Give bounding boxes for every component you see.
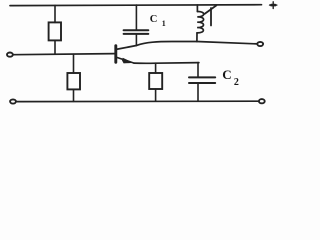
plus supply polarity mark: [270, 2, 277, 9]
wire bottom common rail: [16, 100, 259, 102]
wire collector/tank rail to output: [137, 42, 258, 46]
svg-text:C: C: [150, 14, 158, 25]
label C1: [150, 14, 166, 28]
resistor R3: [149, 63, 162, 101]
svg-text:1: 1: [162, 19, 166, 28]
capacitor C2: [189, 63, 215, 102]
transistor Q1 emitter lead with arrow: [117, 57, 134, 63]
label C2: [222, 67, 239, 88]
svg-text:2: 2: [234, 77, 239, 88]
ground/common terminal circle (left bottom): [10, 99, 16, 103]
output terminal circle (right mid): [257, 42, 263, 46]
resistor R1: [49, 5, 61, 54]
inductor core/arrow mark: [205, 5, 217, 25]
transistor Q1 collector lead: [117, 46, 137, 50]
capacitor C1: [124, 5, 149, 45]
resistor R2: [67, 54, 80, 101]
output terminal circle (right bottom): [259, 99, 265, 103]
wire emitter rail: [134, 62, 199, 65]
input terminal circle (left top): [7, 53, 13, 57]
wire input line to base: [13, 54, 115, 55]
wire top supply rail: [10, 4, 262, 7]
transistor Q1 base bar: [114, 46, 117, 63]
inductor L1 coil: [197, 5, 204, 42]
svg-text:C: C: [222, 67, 231, 82]
